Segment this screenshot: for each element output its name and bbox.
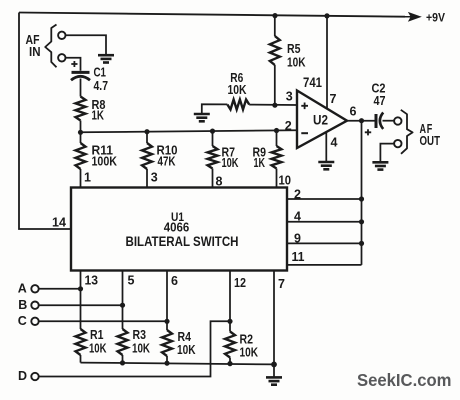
svg-text:OUT: OUT [420, 134, 441, 148]
svg-text:9: 9 [294, 231, 301, 245]
svg-text:7: 7 [278, 277, 285, 291]
wire pin 11 [287, 264, 362, 266]
junction output/bus [359, 118, 364, 123]
svg-text:100K: 100K [92, 155, 118, 169]
resistor R10 [146, 132, 148, 143]
wire C2 to jack [383, 120, 394, 122]
junction R8/R11 [78, 130, 83, 135]
svg-text:U2: U2 [313, 112, 328, 127]
svg-text:10K: 10K [177, 343, 196, 357]
wire pin 2 [287, 198, 362, 200]
svg-text:47: 47 [374, 94, 386, 108]
resistor R5 [274, 16, 276, 36]
wire AF OUT bottom to ground [380, 144, 394, 162]
+9V arrow [404, 13, 420, 20]
junction pin7/rail [271, 362, 277, 368]
svg-text:10: 10 [279, 174, 292, 188]
wire pin 6 [166, 271, 168, 322]
svg-text:R1: R1 [90, 328, 104, 342]
svg-text:1K: 1K [254, 156, 266, 170]
ground op-amp pin 4 [318, 162, 334, 169]
svg-text:14: 14 [52, 216, 66, 230]
wire C1 to R8 [80, 79, 82, 97]
wire pin 13 [80, 271, 82, 289]
jack terminal AF OUT top [394, 117, 401, 124]
op-amp U2 [297, 91, 347, 149]
wire pin 7 to ground [273, 271, 275, 378]
jack terminal AF OUT bottom [394, 140, 401, 147]
wire +9V rail [19, 13, 405, 17]
resistor R9 [276, 131, 278, 147]
svg-text:6: 6 [171, 274, 178, 288]
ground AF OUT [372, 162, 388, 169]
svg-text:11: 11 [292, 250, 305, 264]
svg-text:SeekIC.com: SeekIC.com [357, 370, 452, 390]
junction R5/pin3 wire [272, 103, 277, 108]
svg-text:IN: IN [29, 45, 41, 59]
svg-text:2: 2 [294, 188, 301, 202]
wire pin 5 [122, 271, 124, 306]
wire AF IN bottom to C1 [66, 58, 81, 71]
junction rail-pin7 [324, 13, 329, 18]
junction rail-R5 [272, 13, 277, 18]
wire op-amp output [347, 120, 375, 122]
wire ground rail [81, 363, 275, 365]
wire +9V to pin 14 of U1 [19, 13, 71, 230]
svg-text:C1: C1 [94, 66, 107, 80]
op-amp + input mark [301, 103, 308, 110]
svg-text:7: 7 [330, 92, 337, 106]
resistor R2 [229, 321, 231, 331]
wire pin 12 [229, 271, 231, 322]
resistor R4 [166, 321, 168, 330]
svg-text:1K: 1K [92, 108, 105, 122]
svg-text:47K: 47K [158, 155, 176, 169]
junction R7 [210, 129, 215, 134]
svg-text:10K: 10K [228, 83, 247, 97]
wire R8 to bus [80, 121, 82, 133]
svg-text:D: D [18, 369, 27, 383]
capacitor C2 polarity + [365, 129, 371, 135]
svg-text:10K: 10K [240, 346, 259, 360]
capacitor C2 [375, 114, 378, 128]
IC U1 4066 bilateral switch [71, 188, 287, 271]
svg-text:6: 6 [350, 104, 357, 118]
wire output bus down to switch pins [361, 121, 363, 265]
svg-text:10K: 10K [222, 156, 239, 170]
svg-text:+9V: +9V [426, 13, 445, 25]
resistor R7 [212, 131, 214, 146]
resistor R8 [76, 97, 86, 121]
wire AF IN top to ground [66, 35, 106, 54]
junction R2/rail [227, 361, 232, 366]
svg-text:13: 13 [85, 273, 99, 287]
svg-text:12: 12 [234, 276, 246, 290]
ground main [266, 377, 282, 384]
wire pin 4 [287, 221, 362, 223]
svg-text:B: B [18, 298, 27, 312]
jack terminal AF IN top [58, 32, 65, 39]
ground AF IN [98, 55, 114, 62]
svg-text:4: 4 [294, 209, 301, 223]
wire pin 9 [287, 242, 362, 244]
svg-text:10K: 10K [132, 341, 150, 355]
ground R6 [194, 114, 210, 121]
svg-text:3: 3 [286, 89, 293, 103]
resistor R6 [227, 100, 249, 110]
wire bus to inverting input [81, 130, 298, 132]
svg-text:A: A [18, 282, 27, 296]
wire pin 3 of op-amp [249, 104, 297, 106]
svg-text:1: 1 [84, 170, 91, 184]
capacitor C1 [72, 71, 90, 74]
svg-text:741: 741 [303, 75, 322, 90]
junction R10 [144, 129, 149, 134]
op-amp - input mark [301, 132, 308, 134]
resistor R1 [80, 289, 82, 329]
brace AF IN [45, 25, 56, 68]
wire op-amp pin 7 [326, 16, 328, 109]
svg-text:5: 5 [128, 274, 135, 288]
junction R4/rail [164, 361, 169, 366]
resistor R3 [122, 305, 124, 329]
jack terminal AF IN bottom [58, 54, 65, 61]
svg-text:4: 4 [331, 135, 338, 149]
capacitor C1 polarity + [71, 61, 77, 67]
junction R3/rail [120, 360, 125, 365]
junction R9 [274, 128, 279, 133]
svg-text:10K: 10K [89, 341, 107, 355]
svg-text:4.7: 4.7 [94, 79, 109, 93]
brace AF OUT [401, 110, 413, 154]
resistor R11 [80, 132, 82, 143]
svg-text:R5: R5 [287, 42, 301, 56]
svg-text:2: 2 [285, 119, 292, 133]
svg-text:3: 3 [151, 170, 158, 184]
svg-text:BILATERAL SWITCH: BILATERAL SWITCH [126, 233, 239, 249]
wire op-amp pin 4 [325, 131, 327, 162]
svg-text:R3: R3 [133, 328, 147, 342]
svg-text:C: C [18, 314, 27, 328]
svg-text:R2: R2 [240, 333, 254, 347]
svg-text:10K: 10K [287, 56, 306, 70]
